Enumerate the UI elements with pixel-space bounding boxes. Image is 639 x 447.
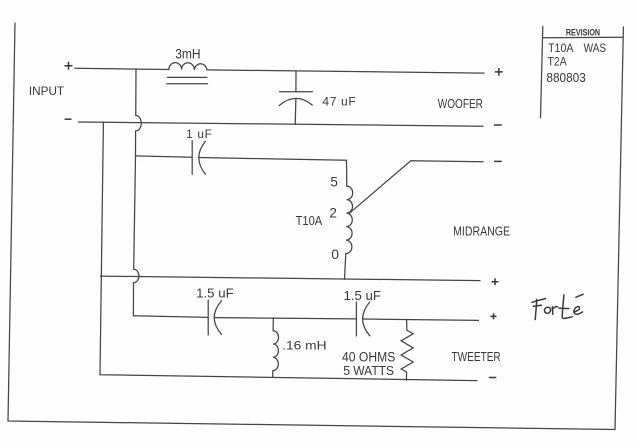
svg-text:1 uF: 1 uF — [186, 127, 212, 141]
svg-text:T10A: T10A — [296, 213, 323, 228]
svg-text:REVISION: REVISION — [566, 27, 600, 37]
svg-text:INPUT: INPUT — [29, 86, 64, 98]
svg-text:2: 2 — [329, 206, 337, 221]
svg-text:TWEETER: TWEETER — [452, 349, 501, 364]
svg-text:880803: 880803 — [546, 70, 585, 85]
svg-text:1.5 uF: 1.5 uF — [344, 288, 382, 303]
svg-text:WOOFER: WOOFER — [438, 97, 483, 111]
svg-text:T2A: T2A — [548, 56, 567, 69]
svg-text:T10A: T10A — [548, 42, 573, 55]
svg-text:WAS: WAS — [584, 42, 607, 55]
svg-text:.16 mH: .16 mH — [282, 338, 326, 352]
svg-text:3mH: 3mH — [175, 46, 200, 61]
svg-text:47 uF: 47 uF — [322, 94, 355, 108]
svg-text:5 WATTS: 5 WATTS — [343, 363, 394, 378]
svg-text:0: 0 — [331, 246, 339, 262]
svg-text:1.5 uF: 1.5 uF — [196, 285, 234, 300]
svg-text:MIDRANGE: MIDRANGE — [453, 224, 510, 239]
svg-text:5: 5 — [330, 175, 338, 190]
